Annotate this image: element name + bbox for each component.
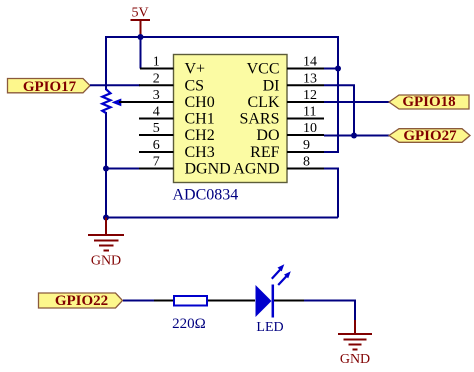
junction: VCC node [335, 66, 341, 72]
svg-text:CH3: CH3 [185, 144, 215, 161]
svg-text:4: 4 [153, 105, 160, 120]
pin 12 (CLK) [248, 88, 325, 111]
svg-text:VCC: VCC [247, 61, 280, 78]
ground symbol left GND [88, 218, 124, 251]
potentiometer RP1 body [102, 89, 110, 113]
wire: LED to bottom GND [304, 301, 355, 321]
junction: ground rail node [103, 215, 109, 221]
pin 2 (CS) [139, 71, 204, 94]
LED D1 cathode bar [272, 285, 275, 318]
junction: DI/DO node [351, 133, 357, 139]
pin 5 (CH2) [139, 121, 215, 144]
value label 220 ohm [172, 316, 206, 332]
label LED [256, 320, 283, 335]
resistor R1 220R body [174, 296, 207, 306]
pin 4 (CH1) [139, 105, 215, 128]
svg-text:GPIO17: GPIO17 [23, 79, 77, 95]
pin 9 (REF) [250, 138, 324, 161]
pin 11 (SARS) [239, 105, 324, 128]
net label 5V [131, 6, 148, 21]
svg-text:10: 10 [303, 121, 317, 136]
power 5V symbol [131, 20, 151, 36]
junction: 5V node [138, 34, 144, 40]
svg-text:LED: LED [256, 320, 283, 335]
svg-text:14: 14 [303, 55, 317, 70]
pin 8 (AGND) [233, 155, 324, 178]
svg-text:220Ω: 220Ω [172, 316, 206, 332]
wire: AGND pin 8 down to ground rail [324, 169, 338, 218]
LED cathode pin wire [274, 300, 304, 302]
svg-text:8: 8 [303, 155, 310, 170]
svg-text:11: 11 [303, 105, 316, 120]
pin 10 (DO) [256, 121, 324, 144]
LED light arrow 2 [278, 271, 291, 285]
wire: bottom ground rail [106, 217, 338, 219]
wire: DGND (pin 7) to left rail [106, 168, 140, 170]
svg-text:CLK: CLK [248, 94, 280, 111]
port flag GPIO17 [8, 79, 91, 96]
svg-text:V+: V+ [185, 61, 206, 78]
pin 14 (VCC) [247, 55, 324, 78]
svg-text:DO: DO [256, 127, 279, 144]
wire: 5V branch down to pin 1 [140, 37, 142, 69]
net label GND left [91, 254, 121, 269]
svg-text:CH1: CH1 [185, 111, 215, 128]
wire: VCC pin 14 to 5V vertical [324, 68, 338, 70]
svg-text:6: 6 [153, 138, 160, 153]
svg-text:CH0: CH0 [185, 94, 215, 111]
resistor to LED pin wire [208, 300, 255, 302]
pin 1 (V+) [140, 55, 205, 78]
wire: DI pin 13 down to DO net [324, 85, 354, 135]
LED D1 anode triangle [256, 285, 272, 317]
wire: CLK pin 12 to GPIO18 [324, 101, 389, 103]
svg-text:SARS: SARS [239, 111, 279, 128]
svg-text:DI: DI [263, 77, 280, 94]
svg-text:9: 9 [303, 138, 310, 153]
pin 3 (CH0) wiper connection [119, 88, 215, 111]
pin 6 (CH3) [139, 138, 215, 161]
svg-text:GND: GND [91, 254, 121, 269]
wire: potentiometer bottom to GND rail [105, 112, 107, 220]
svg-text:2: 2 [153, 71, 160, 86]
pin 13 (DI) [263, 71, 324, 94]
svg-text:GPIO22: GPIO22 [55, 293, 108, 309]
port flag GPIO27 [389, 128, 470, 144]
svg-text:13: 13 [303, 71, 317, 86]
wire: right vertical 5V to REF pin 9 [324, 36, 338, 152]
wire: GPIO22 to resistor [123, 300, 154, 302]
ground symbol bottom right GND [338, 320, 372, 350]
potentiometer wiper arrow [112, 99, 122, 107]
svg-text:1: 1 [153, 55, 160, 70]
resistor pin left [154, 300, 173, 302]
svg-text:3: 3 [153, 88, 160, 103]
svg-text:12: 12 [303, 88, 317, 103]
svg-text:GPIO27: GPIO27 [403, 128, 457, 144]
net label GND right [340, 352, 370, 367]
svg-text:CH2: CH2 [185, 127, 215, 144]
pin 7 (DGND) [139, 155, 231, 178]
svg-text:DGND: DGND [185, 161, 231, 178]
LED light arrow 1 [272, 264, 285, 279]
svg-text:CS: CS [185, 77, 205, 94]
wire: GPIO17 to pin 2 (CS) [90, 84, 140, 86]
svg-text:AGND: AGND [233, 161, 279, 178]
wire: DO pin 10 to GPIO27 [324, 135, 389, 137]
wire: 5V top rail [106, 36, 338, 38]
svg-text:REF: REF [250, 144, 279, 161]
svg-text:5: 5 [153, 121, 160, 136]
svg-text:GPIO18: GPIO18 [402, 94, 455, 110]
IC U1 designator label ADC0834 [173, 187, 239, 204]
port flag GPIO22 [39, 293, 123, 309]
wire: left vertical 5V to potentiometer top [105, 36, 107, 90]
IC U1 ADC0834 body [174, 55, 288, 183]
junction: DGND node [103, 166, 109, 172]
svg-text:GND: GND [340, 352, 370, 367]
svg-text:ADC0834: ADC0834 [173, 187, 239, 204]
port flag GPIO18 [389, 94, 469, 110]
svg-text:5V: 5V [131, 6, 148, 21]
svg-text:7: 7 [153, 155, 160, 170]
